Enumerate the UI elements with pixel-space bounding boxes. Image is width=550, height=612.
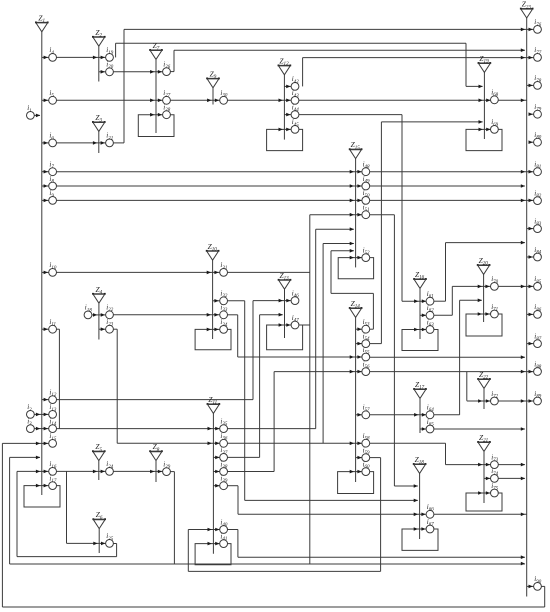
wire (line of Z20) [483,274,485,322]
junction arrow [357,470,361,474]
junction arrow [215,470,219,474]
junction arrow [101,542,105,546]
junction arrow [93,542,97,546]
wire (line of Z7) [155,59,157,133]
node i9 [49,189,57,204]
junction arrow [214,271,218,275]
node i90 [534,575,542,590]
junction arrow [93,313,97,317]
wire [372,293,374,329]
svg-text:i72: i72 [491,390,498,400]
node i5 [49,89,57,104]
junction arrow [529,84,533,88]
node i84 [534,246,542,261]
svg-text:i75: i75 [491,482,498,492]
junction arrow [279,313,283,317]
node i85 [534,275,542,290]
junction arrow [350,242,354,246]
wire [245,499,418,501]
node i44 [291,103,299,118]
junction arrow [521,170,525,174]
svg-text:i87: i87 [534,332,541,342]
junction arrow [215,484,219,488]
wire [527,313,534,315]
node i23 [106,318,114,333]
junction arrow [529,313,533,317]
junction arrow [150,113,154,117]
wire (line of Z5) [98,461,100,480]
node i70 [491,275,499,290]
wire [123,29,125,142]
junction arrow [521,28,525,32]
source Z15 [349,140,363,158]
svg-text:i39: i39 [220,475,227,485]
node i66 [426,503,434,518]
node i89 [534,390,542,405]
feedback loop i17 [24,486,60,507]
junction arrow [101,56,105,60]
junction arrow [214,299,218,303]
node i61 [426,290,434,305]
junction arrow [529,399,533,403]
node i56 [362,360,370,375]
node i76 [534,18,542,33]
wire [57,470,106,472]
junction arrow [485,285,489,289]
svg-text:i81: i81 [534,161,541,171]
node i65 [426,418,434,433]
wire [42,56,49,58]
wire [57,56,106,58]
wire [370,414,426,416]
junction arrow [208,542,212,546]
node i77 [534,46,542,61]
svg-text:i83: i83 [534,217,541,227]
junction arrow [44,271,48,275]
wire [356,343,362,345]
svg-text:i85: i85 [534,275,541,285]
wire [370,356,525,358]
node i68 [491,89,499,104]
source Z16 [413,270,427,288]
node i55 [362,346,370,361]
wire (line of Z22) [483,388,485,409]
wire (line of Z17) [419,398,421,433]
wire [42,171,49,173]
node i35 [220,417,228,432]
svg-text:i57: i57 [363,404,370,414]
feedback loop i63 [402,330,438,351]
wire [188,570,380,572]
wire [544,586,546,607]
junction arrow [207,328,211,332]
node i83 [534,217,542,232]
junction arrow [529,112,533,116]
svg-text:i47: i47 [292,314,299,324]
wire [445,243,447,302]
wire [401,115,403,302]
svg-text:i48: i48 [363,161,370,171]
junction arrow [479,99,483,103]
node i41 [220,532,228,547]
node i30 [220,89,228,104]
junction arrow [350,370,354,374]
node i17 [49,474,57,489]
wire (line of Z2) [98,46,100,81]
junction arrow [286,299,290,303]
node i57 [362,404,370,419]
node i39 [220,475,228,490]
source Z19 [478,54,492,72]
wire [57,99,527,101]
wire [460,299,482,301]
wire [66,471,68,543]
junction arrow [521,513,525,517]
junction arrow [286,128,290,132]
wire [173,472,175,564]
node i46 [291,289,299,304]
node i4 [49,46,57,61]
junction arrow [207,313,211,317]
svg-text:i80: i80 [534,131,541,141]
svg-text:i70: i70 [491,275,498,285]
wire (line of Z3) [98,131,100,153]
node i13 [49,403,57,418]
node i88 [534,360,542,375]
junction arrow [207,99,211,103]
wire [116,329,118,443]
wire [370,442,446,444]
node i42 [291,75,299,90]
junction arrow [44,56,48,60]
wire (line of Z21) [483,451,485,503]
wire [529,113,534,115]
svg-text:i86: i86 [534,303,541,313]
junction arrow [93,141,97,145]
wire (line of Z1) [41,32,43,495]
wire [303,57,534,59]
svg-text:i46: i46 [292,289,299,299]
node i24 [106,460,114,475]
junction arrow [214,328,218,332]
feedback loop i69 [466,129,502,150]
wire [370,457,381,459]
junction arrow [422,299,426,303]
svg-text:i53: i53 [363,318,370,328]
junction arrow [357,256,361,260]
node i34 [220,318,228,333]
source Z18 [413,455,427,473]
wire [315,229,317,428]
junction arrow [414,527,418,531]
wire [124,28,534,30]
node i71 [491,303,499,318]
wire [57,428,220,430]
feedback loop i41 [195,544,231,565]
wire [42,142,49,144]
feedback loop i45 [267,129,303,150]
svg-text:i77: i77 [534,46,541,56]
junction arrow [414,499,418,503]
wire (line of Z8) [155,461,157,482]
node i11 [49,318,57,333]
junction arrow [101,70,105,74]
source Z20 [477,256,491,274]
wire [42,328,49,330]
node i36 [220,432,228,447]
junction arrow [214,313,218,317]
wire [42,271,49,273]
wire [445,443,447,464]
node i59 [362,446,370,461]
junction arrow [150,70,154,74]
node i40 [220,518,228,533]
source Z9 [206,69,220,87]
wire [527,585,534,587]
node i37 [220,446,228,461]
svg-text:i76: i76 [534,18,541,28]
node i31 [220,261,228,276]
node i2 [27,403,35,418]
junction arrow [421,527,425,531]
svg-text:i68: i68 [491,89,498,99]
svg-text:i82: i82 [534,189,541,199]
wire [260,314,283,316]
wire (line of Z11) [212,413,214,553]
svg-text:i88: i88 [534,360,541,370]
svg-text:i51: i51 [363,204,370,214]
wire [42,199,49,201]
node i15 [49,432,57,447]
wire [34,428,48,430]
junction arrow [478,491,482,495]
wire [58,329,60,428]
source Z13 [278,271,292,289]
junction arrow [158,470,162,474]
junction arrow [44,484,48,488]
wire [446,242,525,244]
svg-text:i52: i52 [363,246,370,256]
junction arrow [521,555,525,559]
node i43 [291,89,299,104]
wire [370,371,534,373]
junction arrow [208,427,212,431]
svg-text:i78: i78 [534,74,541,84]
wire [57,171,534,173]
junction arrow [486,399,490,403]
wire [244,301,246,501]
junction arrow [478,285,482,289]
junction arrow [478,312,482,316]
node i64 [426,404,434,419]
wire [34,413,48,415]
junction arrow [478,299,482,303]
wire [323,243,354,245]
junction arrow [44,170,48,174]
node i22 [106,304,114,319]
node i52 [362,246,370,261]
node i81 [534,161,542,176]
wire [465,43,467,86]
svg-text:i31: i31 [220,261,227,271]
wire [380,122,382,344]
junction arrow [521,399,525,403]
wire [187,530,189,572]
wire [380,458,382,572]
wire [17,556,117,558]
junction arrow [414,299,418,303]
source Z5 [92,442,106,460]
wire [228,456,260,458]
source Z22 [477,370,491,388]
junction arrow [215,542,219,546]
node i62 [426,304,434,319]
node i45 [291,118,299,133]
source Z14 [349,299,363,317]
svg-text:i21: i21 [106,132,113,142]
feedback loop i47 [267,325,303,350]
wire [253,300,291,302]
junction arrow [414,484,418,488]
junction arrow [350,199,354,203]
junction arrow [215,442,219,446]
wire [420,314,426,316]
wire [381,121,482,123]
wire [9,457,11,564]
junction arrow [529,285,533,289]
wire [237,315,239,357]
junction arrow [357,442,361,446]
svg-text:i71: i71 [491,303,498,313]
wire [42,99,49,101]
svg-text:i54: i54 [363,332,370,342]
svg-text:i19: i19 [106,46,113,56]
junction arrow [36,442,40,446]
wire [529,141,534,143]
junction arrow [357,327,361,331]
wire (line of Z4) [98,303,100,339]
svg-text:i56: i56 [363,360,370,370]
wire [42,185,49,187]
wire (line of Z12) [283,75,285,140]
wire [302,58,304,87]
wire [527,256,534,258]
junction arrow [521,477,525,481]
junction arrow [486,128,490,132]
svg-text:i69: i69 [491,118,498,128]
svg-text:i18: i18 [85,304,92,314]
wire [57,328,60,330]
junction arrow [44,184,48,188]
wire [10,456,40,458]
svg-text:i11: i11 [49,318,56,328]
node i75 [491,482,499,497]
svg-text:i15: i15 [49,432,56,442]
wire [330,251,332,294]
junction arrow [36,427,40,431]
wire [228,471,275,473]
source Z11 [207,395,221,413]
wire [310,214,362,216]
wire [16,471,18,556]
junction arrow [486,463,490,467]
svg-text:i50: i50 [363,189,370,199]
junction arrow [93,56,97,60]
wire [34,114,40,116]
junction arrow [422,427,426,431]
junction arrow [486,99,490,103]
node i33 [220,304,228,319]
junction arrow [486,491,490,495]
svg-text:i22: i22 [106,304,113,314]
svg-text:i61: i61 [427,290,434,300]
junction arrow [414,413,418,417]
wire [393,215,395,486]
junction arrow [44,413,48,417]
wire (line of Z23) [526,18,528,597]
svg-text:i28: i28 [163,104,170,114]
wire [434,314,452,316]
junction arrow [150,470,154,474]
junction arrow [529,585,533,589]
wire [170,471,174,473]
wire (line of Z10) [212,260,214,339]
wire (line of Z14) [355,317,357,482]
wire [238,556,525,558]
junction arrow [350,470,354,474]
wire [527,228,534,230]
junction arrow [44,99,48,103]
junction arrow [350,227,354,231]
junction arrow [158,70,162,74]
wire [459,300,461,415]
junction arrow [350,184,354,188]
svg-text:i65: i65 [427,418,434,428]
junction arrow [478,399,482,403]
junction arrow [350,442,354,446]
feedback loop i67 [402,529,438,550]
junction arrow [479,120,483,124]
node i47 [291,314,299,329]
wire [228,314,238,316]
svg-text:i90: i90 [534,575,541,585]
node i87 [534,332,542,347]
svg-text:i84: i84 [534,246,541,256]
wire [117,442,220,444]
junction arrow [521,355,525,359]
junction arrow [36,456,40,460]
svg-text:i14: i14 [49,417,56,427]
junction arrow [486,477,490,481]
feedback loop i71 [466,314,502,336]
feedback loop i28 [138,115,174,137]
node i69 [491,118,499,133]
wire [2,606,544,608]
wire [420,428,426,430]
source Z21 [477,433,491,451]
source Z4 [92,285,106,303]
node i48 [362,161,370,176]
junction arrow [215,456,219,460]
wire [228,442,362,444]
wire [57,142,106,144]
wire [17,470,49,472]
node i26 [163,60,171,75]
junction arrow [422,328,426,332]
wire [228,428,316,430]
wire [238,513,527,515]
wire [174,49,525,51]
